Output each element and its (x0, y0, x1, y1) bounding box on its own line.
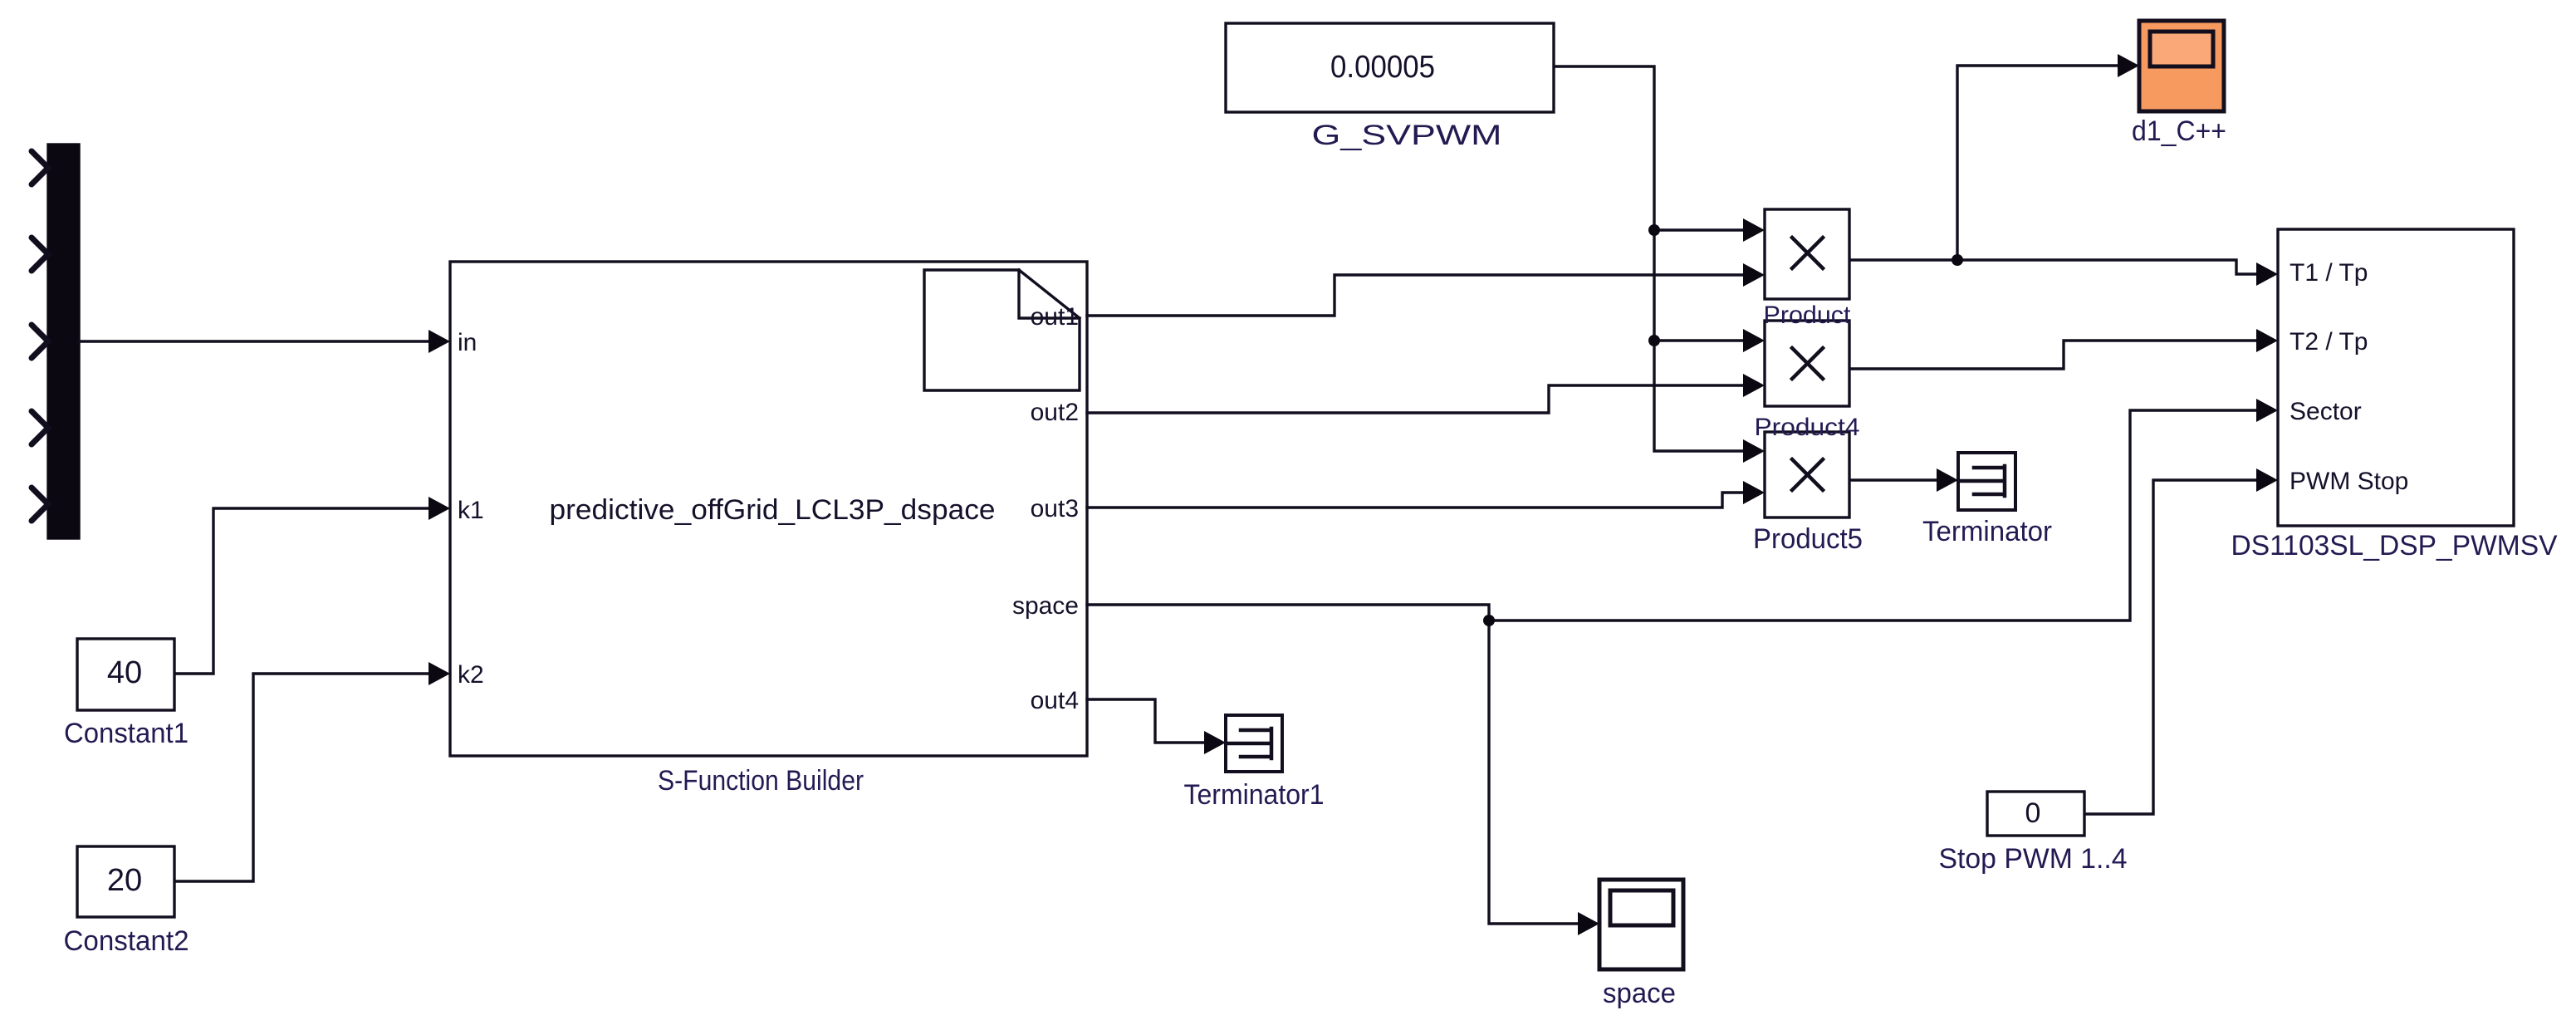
svg-text:k1: k1 (458, 497, 484, 524)
junction space (1483, 615, 1495, 626)
Terminator1 block (1226, 715, 1282, 772)
svg-text:Terminator: Terminator (1922, 516, 2052, 547)
svg-text:0: 0 (2025, 797, 2041, 829)
wire Product5 output to Terminator (1849, 478, 1940, 481)
Product block (1765, 209, 1849, 299)
wire Constant2 to k2 (174, 674, 432, 881)
wire out3 to Product5 second input (1087, 493, 1746, 508)
G_SVPWM constant block (1226, 23, 1554, 112)
wire G_SVPWM trunk (1554, 66, 1746, 451)
svg-text:Product5: Product5 (1753, 523, 1863, 555)
mux input chevron 5 (32, 488, 48, 521)
DS1103SL_DSP_PWMSV block (2278, 229, 2514, 526)
svg-text:Terminator1: Terminator1 (1184, 779, 1325, 811)
wire out2 to Product4 second input (1087, 385, 1746, 413)
wire space port trunk (1087, 605, 1489, 620)
svg-text:predictive_offGrid_LCL3P_dspac: predictive_offGrid_LCL3P_dspace (550, 494, 996, 526)
svg-text:out1: out1 (1031, 303, 1079, 331)
svg-text:G_SVPWM: G_SVPWM (1312, 120, 1502, 151)
Constant2 block (77, 846, 174, 917)
mux input chevron 1 (32, 151, 48, 184)
svg-text:S-Function Builder: S-Function Builder (658, 765, 864, 797)
Stop PWM constant block (1987, 792, 2084, 836)
d1_C++ scope block (2139, 21, 2224, 111)
junction G_SVPWM Product (1648, 224, 1660, 236)
wire Product4 output to T2/Tp (1849, 341, 2260, 369)
wire Product output to T1/Tp (1849, 260, 2260, 274)
svg-text:space: space (1012, 592, 1079, 620)
svg-text:Sector: Sector (2290, 398, 2362, 425)
wire Constant1 to k1 (174, 508, 432, 674)
Product5 block (1765, 432, 1849, 517)
wire G_SVPWM branch to Product first input (1654, 228, 1746, 231)
space scope block (1599, 880, 1683, 969)
mux input chevron 2 (32, 238, 48, 271)
svg-text:k2: k2 (458, 661, 484, 689)
wire space to Sector (1489, 410, 2260, 620)
junction G_SVPWM Product4 (1648, 335, 1660, 346)
S-Function Builder block (450, 262, 1087, 756)
svg-text:d1_C++: d1_C++ (2132, 115, 2226, 147)
svg-text:40: 40 (107, 655, 142, 690)
svg-text:20: 20 (107, 863, 142, 898)
wire mux to in port (79, 340, 432, 342)
svg-text:DS1103SL_DSP_PWMSV: DS1103SL_DSP_PWMSV (2231, 530, 2558, 562)
svg-text:Constant2: Constant2 (64, 925, 189, 957)
Constant1 block (77, 639, 174, 710)
svg-text:T2 / Tp: T2 / Tp (2290, 328, 2368, 356)
svg-text:space: space (1603, 978, 1676, 1009)
svg-text:out2: out2 (1031, 399, 1079, 426)
wire out4 to Terminator1 (1087, 699, 1207, 743)
wire space branch to scope (1489, 620, 1581, 924)
Product4 block (1765, 321, 1849, 406)
svg-text:0.00005: 0.00005 (1330, 50, 1435, 85)
mux input chevron 3 (32, 325, 48, 358)
junction Product output (1952, 254, 1963, 266)
svg-text:PWM Stop: PWM Stop (2290, 468, 2408, 495)
wire Stop PWM constant to PWM Stop (2084, 480, 2260, 814)
Terminator block (1958, 453, 2015, 510)
wire G_SVPWM branch to Product4 first input (1654, 339, 1746, 341)
S-function paper icon with folded corner (924, 270, 1080, 390)
svg-text:T1 / Tp: T1 / Tp (2290, 259, 2368, 287)
wire out1 to Product second input (1087, 275, 1746, 316)
svg-text:Stop PWM 1..4: Stop PWM 1..4 (1939, 843, 2128, 875)
svg-text:Product: Product (1764, 302, 1852, 329)
svg-text:Product4: Product4 (1755, 414, 1860, 441)
mux input chevron 4 (32, 411, 48, 444)
svg-text:out4: out4 (1031, 687, 1079, 714)
svg-text:out3: out3 (1031, 495, 1079, 522)
svg-text:Constant1: Constant1 (64, 718, 189, 749)
svg-text:in: in (458, 329, 477, 356)
wire branch to d1_C++ scope (1957, 66, 2120, 260)
mux bar (48, 145, 79, 538)
